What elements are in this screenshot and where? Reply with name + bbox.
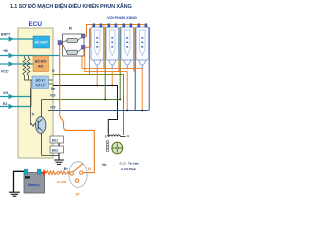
svg-text:Ne: Ne — [102, 163, 106, 167]
svg-text:E02: E02 — [52, 148, 58, 152]
svg-text:G: G — [52, 69, 55, 73]
svg-text:E2: E2 — [3, 102, 7, 106]
svg-text:R: R — [69, 26, 72, 31]
svg-text:BỘ NHỚ: BỘ NHỚ — [35, 40, 48, 45]
svg-text:VÒI PHUN XĂNG: VÒI PHUN XĂNG — [107, 15, 137, 20]
svg-text:BATT: BATT — [1, 33, 11, 37]
svg-text:E01: E01 — [52, 138, 58, 142]
svg-text:XỬ LÝ: XỬ LÝ — [35, 83, 46, 88]
svg-text:IG-SW: IG-SW — [57, 180, 66, 184]
svg-text:Battery: Battery — [28, 183, 40, 187]
svg-text:Ne: Ne — [51, 87, 55, 91]
svg-text:G, G : Tín hiệu: G, G : Tín hiệu — [120, 162, 140, 166]
svg-text:VCC: VCC — [1, 70, 9, 74]
svg-text:IG: IG — [88, 167, 92, 171]
svg-text:A/D: A/D — [38, 64, 44, 68]
svg-text:ECU: ECU — [29, 21, 43, 28]
svg-text:ST: ST — [76, 193, 80, 197]
svg-text:B+: B+ — [64, 167, 68, 171]
svg-text:#10: #10 — [50, 94, 56, 98]
svg-text:VG: VG — [3, 91, 8, 95]
svg-text:BỘ ĐỔI: BỘ ĐỔI — [35, 58, 46, 63]
svg-text:1.1 SƠ ĐỒ MẠCH ĐIỆN ĐIỀU KHIỂN: 1.1 SƠ ĐỒ MẠCH ĐIỆN ĐIỀU KHIỂN PHUN XĂNG — [10, 2, 132, 10]
svg-text:+B: +B — [3, 49, 8, 53]
svg-text:ở Vòi Phun: ở Vòi Phun — [121, 167, 136, 171]
svg-text:#20: #20 — [50, 106, 56, 110]
svg-text:BỘ VI: BỘ VI — [36, 78, 45, 83]
